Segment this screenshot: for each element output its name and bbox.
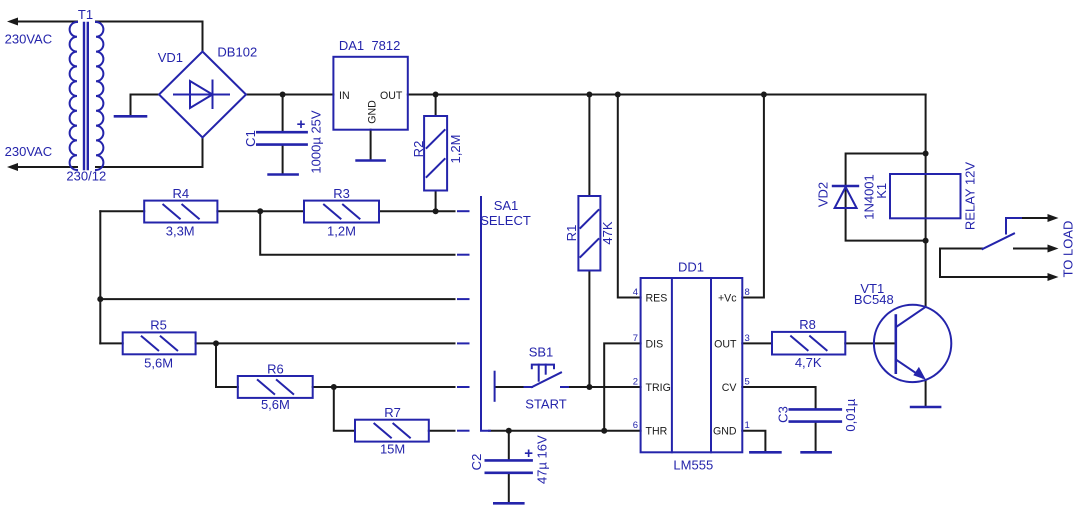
ground C1 — [269, 173, 298, 176]
relay contact arm — [983, 234, 1015, 250]
svg-text:LM555: LM555 — [673, 457, 713, 472]
resistor R8 body — [772, 332, 845, 355]
capacitor C2 plates — [486, 460, 532, 472]
svg-text:GND: GND — [367, 100, 379, 124]
transistor VT1 — [874, 305, 951, 382]
wire R2 bottom stub — [435, 191, 437, 212]
svg-text:230VAC: 230VAC — [5, 144, 52, 159]
svg-text:VD1: VD1 — [158, 50, 183, 65]
svg-text:R5: R5 — [150, 317, 167, 332]
svg-text:230/12: 230/12 — [66, 169, 106, 184]
node +Vc riser — [761, 92, 767, 98]
wire relay NC throw — [1014, 248, 1049, 250]
resistor R7 body — [355, 420, 429, 442]
wire R3 to SA1 contact 1 — [379, 210, 455, 212]
SA1 contact 5 — [458, 386, 469, 388]
svg-text:OUT: OUT — [380, 90, 403, 102]
svg-text:7: 7 — [633, 333, 638, 344]
svg-text:47K: 47K — [600, 221, 615, 244]
wire R2 top stub — [435, 95, 437, 117]
arrow 230VAC bottom — [7, 163, 18, 171]
svg-text:15M: 15M — [380, 442, 405, 457]
transformer T1 core — [84, 23, 88, 169]
node C1 top — [280, 92, 286, 98]
svg-text:R6: R6 — [267, 361, 284, 376]
arrow to load NC — [1048, 245, 1059, 253]
node R2 top — [433, 92, 439, 98]
wire row4 left to R5 — [100, 342, 122, 344]
selector switch SA1 pole — [481, 197, 490, 431]
svg-text:TO LOAD: TO LOAD — [1061, 221, 1076, 278]
node row3 tap — [97, 296, 103, 302]
svg-text:SELECT: SELECT — [480, 213, 531, 228]
wire THR row — [489, 430, 641, 432]
svg-text:1: 1 — [745, 420, 750, 431]
wire R6 to SA1 contact 5 — [313, 386, 455, 388]
svg-text:C2: C2 — [469, 454, 484, 471]
svg-text:TRIG: TRIG — [646, 382, 671, 394]
svg-text:230VAC: 230VAC — [5, 32, 52, 47]
wire R5 to SA1 contact 4 — [196, 342, 455, 344]
node relay bottom — [923, 238, 929, 244]
svg-text:START: START — [525, 396, 566, 411]
svg-text:R4: R4 — [172, 186, 189, 201]
node R6 right tap — [331, 384, 337, 390]
wire row1 left to R4 — [100, 210, 144, 212]
svg-text:1,2M: 1,2M — [327, 224, 356, 239]
relay contact NO post — [1006, 218, 1021, 234]
node C2 top junction — [506, 428, 512, 434]
bridge rectifier VD1 diamond — [159, 52, 246, 138]
SA1 contact 3 — [458, 298, 469, 300]
wire bridge left vertex to chassis — [131, 95, 159, 116]
bridge rectifier VD1 inner diode — [174, 81, 229, 109]
SA1 contact 4 — [458, 342, 469, 344]
wire DA1 GND pin — [370, 130, 372, 160]
svg-text:IN: IN — [339, 90, 350, 102]
arrow 230VAC top — [7, 18, 18, 26]
node TRIG junction — [586, 384, 592, 390]
wire VT1 emitter to ground — [925, 380, 927, 406]
svg-text:R1: R1 — [564, 225, 579, 242]
wire RES pin 4 riser — [618, 95, 641, 298]
svg-text:1,2M: 1,2M — [448, 135, 463, 164]
timer IC DD1 box — [641, 278, 743, 452]
wire row3 to SA1 contact 3 — [100, 298, 454, 300]
SA1 contact 1 — [458, 210, 469, 212]
ground VT1 emitter — [911, 406, 940, 409]
ground DD1 GND pin — [750, 451, 780, 454]
svg-text:6: 6 — [633, 420, 638, 431]
svg-text:5: 5 — [745, 377, 750, 388]
svg-text:3: 3 — [745, 333, 750, 344]
wire +Vc pin 8 riser — [742, 95, 764, 298]
svg-text:SA1: SA1 — [494, 198, 519, 213]
diode VD2 — [833, 186, 858, 208]
svg-text:R3: R3 — [333, 186, 350, 201]
resistor R3 body — [304, 201, 379, 223]
wire primary bottom lead — [16, 166, 77, 168]
svg-text:R7: R7 — [384, 405, 401, 420]
svg-text:GND: GND — [713, 426, 737, 438]
label DA1 7812 — [339, 38, 401, 53]
push button SB1 — [495, 365, 568, 401]
svg-text:RELAY 12V: RELAY 12V — [963, 162, 978, 231]
capacitor C1 plates — [257, 132, 306, 144]
wire branch down to R6 — [216, 343, 238, 387]
wire primary top lead — [16, 21, 77, 23]
svg-text:8: 8 — [745, 287, 750, 298]
wire row2 branch to SA1 contact 2 — [260, 211, 454, 255]
svg-text:DD1: DD1 — [678, 260, 704, 275]
arrow to load NO — [1048, 214, 1059, 222]
resistor R1 body — [578, 196, 600, 271]
wire CV pin 5 to C3 — [742, 387, 815, 408]
svg-text:4,7K: 4,7K — [795, 355, 822, 370]
wire R7 to SA1 contact 6 — [429, 430, 455, 432]
wire SB1 to TRIG pin 2 — [568, 386, 641, 388]
svg-text:+: + — [524, 445, 533, 462]
svg-text:OUT: OUT — [714, 338, 737, 350]
regulator DA1 box — [333, 57, 407, 130]
svg-text:DIS: DIS — [646, 338, 664, 350]
wire C2 to ground — [508, 474, 510, 503]
wire C1 to ground — [282, 146, 284, 174]
resistor R6 body — [238, 376, 313, 398]
ground C3 — [802, 451, 831, 454]
svg-text:C3: C3 — [775, 406, 790, 423]
svg-text:RES: RES — [646, 292, 668, 304]
node R4-R3 junction — [257, 208, 263, 214]
wire C1 riser — [282, 95, 284, 132]
svg-text:3,3M: 3,3M — [166, 224, 195, 239]
relay coil K1 box — [890, 174, 961, 218]
svg-text:DA1: DA1 — [339, 38, 364, 53]
svg-text:+Vc: +Vc — [718, 292, 737, 304]
svg-text:DB102: DB102 — [217, 45, 257, 60]
capacitor C3 plates — [790, 409, 841, 421]
wire secondary bottom to bridge — [96, 139, 203, 168]
svg-text:SB1: SB1 — [529, 345, 554, 360]
arrow to load common — [1048, 273, 1059, 281]
svg-text:5,6M: 5,6M — [261, 397, 290, 412]
node RES riser — [615, 92, 621, 98]
svg-text:VD2: VD2 — [816, 182, 831, 207]
svg-text:5,6M: 5,6M — [144, 355, 173, 370]
svg-text:47µ 16V: 47µ 16V — [535, 435, 550, 484]
node DIS-THR junction — [601, 428, 607, 434]
resistor R2 body — [424, 116, 447, 191]
wire bridge output to DA1 IN — [247, 94, 333, 96]
wire R1 bottom to TRIG — [588, 271, 590, 388]
wire +12V rail from DA1 OUT to relay — [408, 94, 926, 96]
svg-text:+: + — [297, 116, 306, 133]
node R5 right tap — [213, 340, 219, 346]
wire R8 to VT1 base — [845, 342, 896, 344]
svg-text:7812: 7812 — [371, 38, 400, 53]
wire relay contact common — [940, 249, 1049, 278]
transformer T1 primary winding — [70, 22, 77, 170]
svg-text:K1: K1 — [874, 183, 889, 199]
resistor R5 body — [123, 332, 196, 354]
transformer T1 secondary winding — [96, 22, 103, 170]
wire relay branch vertical — [925, 95, 927, 307]
node relay top — [923, 151, 929, 157]
resistor R4 body — [144, 201, 217, 223]
wire branch down to R7 — [334, 387, 355, 431]
wire relay NO throw — [1021, 217, 1049, 219]
SA1 contact 2 — [458, 254, 469, 256]
ground DA1 — [357, 159, 385, 162]
wire OUT pin 3 to R8 — [742, 342, 772, 344]
svg-text:BC548: BC548 — [854, 292, 894, 307]
svg-text:0,01µ: 0,01µ — [843, 398, 858, 431]
wire C3 to ground — [815, 423, 817, 452]
wire R4 to R3 — [217, 210, 304, 212]
wire SB1 left — [496, 386, 525, 388]
svg-text:THR: THR — [646, 426, 668, 438]
SA1 contact 6 — [458, 430, 469, 432]
svg-text:T1: T1 — [78, 7, 93, 22]
svg-text:C1: C1 — [243, 130, 258, 147]
svg-text:CV: CV — [722, 382, 738, 394]
wire DIS to THR link — [604, 343, 640, 430]
wire left divider bus — [99, 211, 101, 343]
svg-text:4: 4 — [633, 287, 638, 298]
node R2 bottom — [433, 208, 439, 214]
svg-text:1000µ 25V: 1000µ 25V — [309, 110, 324, 173]
wire R1 top stub — [588, 95, 590, 197]
svg-text:R2: R2 — [411, 141, 426, 158]
svg-text:2: 2 — [633, 377, 638, 388]
wire secondary top to bridge — [96, 22, 203, 52]
wire VD2 branch — [846, 154, 926, 241]
ground C2 — [494, 502, 523, 505]
chassis ground at bridge input — [115, 115, 146, 118]
wire GND pin 1 to ground — [742, 431, 765, 452]
wire C2 top stub — [508, 431, 510, 460]
svg-text:R8: R8 — [799, 317, 816, 332]
node R1 top — [586, 92, 592, 98]
